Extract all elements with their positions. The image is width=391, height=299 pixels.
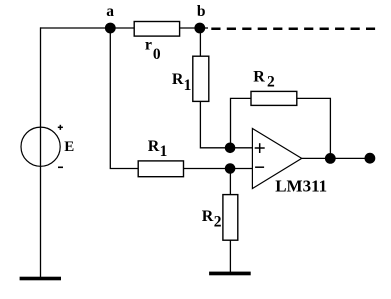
feedback wire from R2 right to output node (297, 98, 331, 158)
svg-text:R: R (172, 71, 184, 88)
resistor R2 (bottom, to ground) (202, 195, 238, 241)
resistor R2 (feedback, top) (251, 69, 297, 106)
svg-text:2: 2 (214, 213, 222, 230)
resistor R1 (horizontal, to minus input) (138, 138, 183, 177)
svg-text:R: R (148, 138, 160, 155)
wire from R1 vertical down then right to plus node (200, 101, 230, 147)
svg-text:a: a (106, 3, 114, 20)
wire from plus node to comparator plus input (230, 147, 252, 149)
wire from bottom R2 to ground (229, 240, 231, 272)
wire left vertical from top corner through source E to ground (40, 27, 42, 277)
feedback wire from plus node up to resistor R2 (231, 98, 252, 147)
svg-text:R: R (202, 208, 214, 225)
svg-text:2: 2 (267, 74, 275, 91)
ground (left, below source) (20, 277, 61, 281)
resistor R1 (vertical, from node b) (172, 56, 209, 101)
resistor r0 (134, 22, 179, 63)
svg-text:LM311: LM311 (275, 177, 327, 196)
svg-text:E: E (64, 139, 74, 155)
node plus input junction (225, 143, 236, 154)
svg-text:1: 1 (184, 77, 192, 94)
svg-text:b: b (197, 3, 206, 20)
node a (105, 3, 116, 34)
svg-text:r: r (145, 37, 152, 54)
node output junction (325, 153, 336, 164)
node minus input junction (225, 163, 236, 174)
comparator U1 LM311 (252, 129, 327, 196)
dashed net continuation from node b (211, 28, 375, 31)
wire top horizontal from source to node a and resistor r0 (40, 27, 135, 29)
ground (below bottom R2) (209, 272, 251, 276)
svg-text:1: 1 (160, 143, 168, 160)
wire from node a down then right to horizontal resistor R1 (110, 28, 138, 169)
wire from minus node down to resistor R2 (bottom) (229, 169, 231, 196)
wire stub right of node b (200, 27, 208, 29)
voltage source E (21, 125, 74, 168)
svg-text:0: 0 (153, 46, 161, 63)
node output terminal (365, 153, 376, 164)
wire from r0 to node b (180, 27, 200, 29)
svg-text:R: R (253, 69, 265, 86)
node b (194, 3, 205, 34)
wire from node b down to resistor R1 (vertical) (199, 28, 201, 57)
wire from R1 horizontal to minus node and comparator minus input (184, 168, 253, 170)
wire from comparator output to terminal (302, 157, 370, 159)
